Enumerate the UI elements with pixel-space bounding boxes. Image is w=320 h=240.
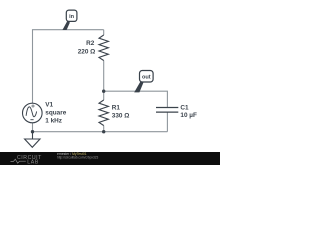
svg-text:330 Ω: 330 Ω — [112, 112, 130, 119]
capacitor C1 — [156, 108, 178, 113]
wire: R1 top lead — [103, 91, 105, 100]
svg-text:C1: C1 — [180, 104, 189, 111]
voltage source V1 — [23, 103, 43, 123]
node A junction R2/R1/C1 — [102, 90, 105, 93]
node: junction V1/ground/rail — [31, 130, 34, 133]
wire: node A to C1 top — [104, 91, 168, 107]
svg-text:LAB: LAB — [27, 159, 39, 165]
wire: V1 bottom lead — [32, 123, 34, 132]
wire: R1 bottom lead — [103, 126, 105, 132]
resistor R1 — [99, 100, 108, 126]
node: junction R1 bottom rail — [102, 130, 105, 133]
footer bar — [0, 152, 220, 165]
svg-text:10 µF: 10 µF — [180, 112, 197, 119]
flag in — [66, 10, 77, 21]
flag out — [140, 71, 154, 83]
wire: C1 bottom to bottom rail — [166, 112, 168, 131]
svg-text:V1: V1 — [45, 101, 53, 108]
flag in pointer — [62, 21, 70, 30]
wire: top rail from V1 top to R2 top corner — [33, 30, 104, 104]
logo waveform — [11, 159, 26, 163]
svg-text:220 Ω: 220 Ω — [78, 49, 96, 56]
svg-text:R2: R2 — [86, 40, 95, 47]
wire: R2 bottom to node A — [103, 61, 105, 92]
wire: R2 top lead — [103, 30, 105, 35]
wire: bottom rail — [33, 131, 168, 133]
svg-text:square: square — [45, 109, 66, 116]
svg-text:http://circuitlab.com/c/bpx323: http://circuitlab.com/c/bpx323 — [57, 156, 99, 160]
svg-text:R1: R1 — [112, 105, 121, 112]
flag out pointer — [134, 81, 143, 93]
svg-text:1 kHz: 1 kHz — [45, 117, 62, 124]
svg-text:out: out — [142, 74, 151, 80]
svg-text:in: in — [69, 14, 75, 20]
resistor R2 — [99, 35, 108, 61]
ground — [32, 132, 34, 139]
